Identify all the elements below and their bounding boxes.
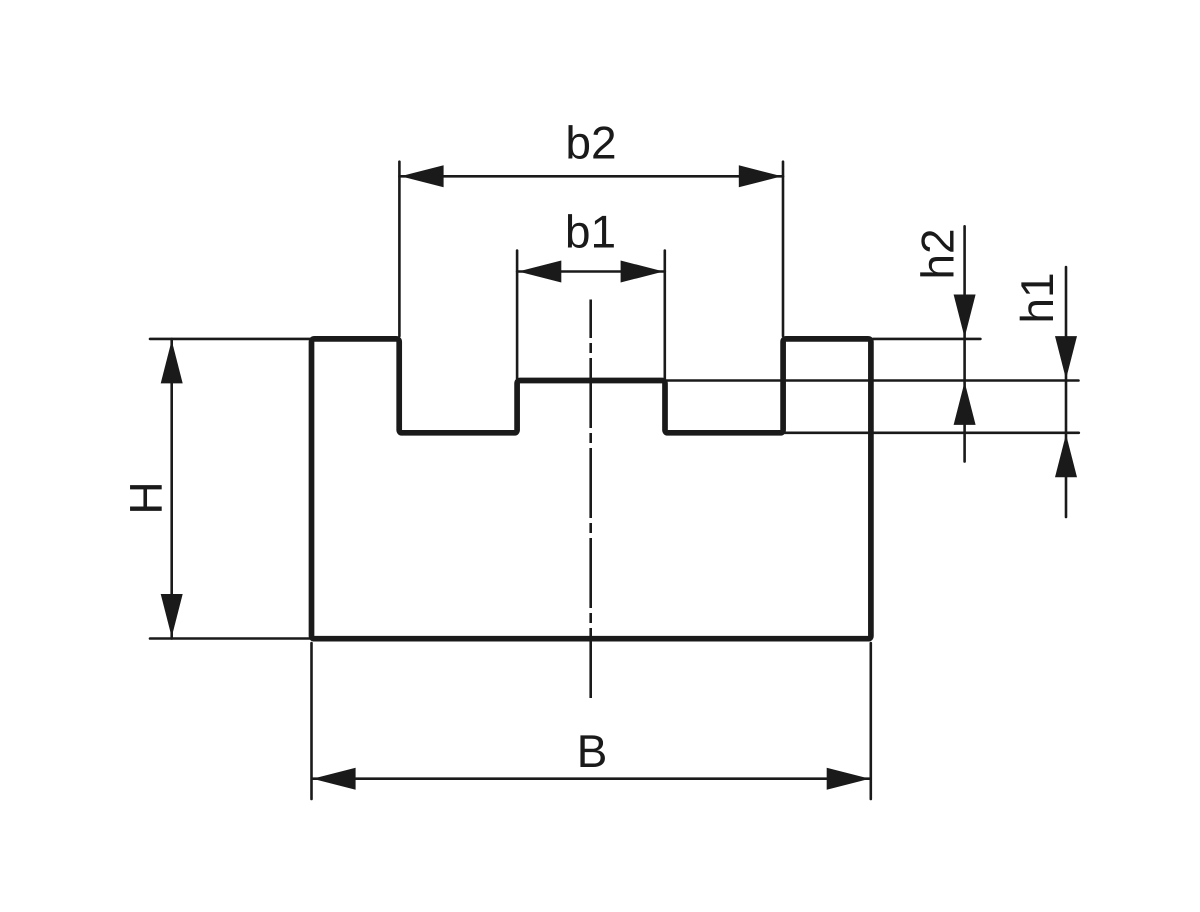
B extension line right [869, 643, 872, 799]
b1 arrow left [518, 261, 561, 283]
B arrow left [313, 768, 356, 790]
h1 label [1020, 275, 1053, 321]
h1 dimension line [1065, 267, 1068, 517]
B label [580, 735, 604, 767]
b1 arrow right [621, 261, 664, 283]
h1 arrow up (below, pointing to notch bottom line) [1055, 434, 1077, 477]
h2/h1 reference line (middle top level) [667, 379, 1079, 382]
centerline (dash-dot vertical axis) [589, 300, 592, 699]
H reference line top [150, 338, 310, 341]
h1 reference line (notch bottom level) [785, 431, 1079, 434]
h2 reference line (ear top level) [873, 338, 980, 341]
b2 extension line right [782, 162, 785, 336]
B dimension line [313, 777, 870, 780]
H label [130, 485, 162, 511]
h2 dimension line [963, 226, 966, 461]
h2 label [920, 231, 953, 277]
h2 arrow up (below, pointing to middle top line) [954, 382, 976, 425]
H dimension line [170, 339, 173, 639]
b1 label [568, 214, 614, 248]
h1 arrow down (above, pointing to middle top line) [1055, 336, 1077, 379]
b1 dimension line [517, 270, 665, 273]
b2 arrow right [739, 165, 782, 187]
h2 arrow down (above, pointing to ear top line) [954, 295, 976, 338]
profile outline [312, 339, 871, 639]
b2 arrow left [401, 165, 444, 187]
b1 extension line right [663, 251, 666, 380]
b2 extension line left [398, 162, 401, 336]
b2 label [568, 125, 614, 159]
B arrow right [827, 768, 870, 790]
H reference line bottom [150, 637, 310, 640]
b2 dimension line [399, 175, 783, 178]
H arrow down [161, 594, 183, 637]
B extension line left [310, 643, 313, 799]
H arrow up [161, 340, 183, 383]
b1 extension line left [516, 251, 519, 380]
